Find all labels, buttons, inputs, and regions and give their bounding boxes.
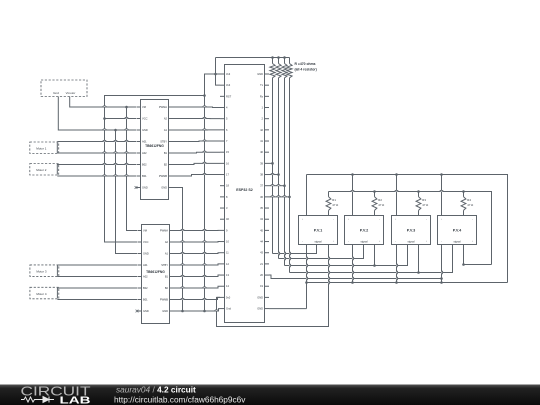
wire pin39 to R5 column [269, 162, 274, 165]
wire U2 GND down [173, 188, 184, 313]
wire U3 B1 to ESP [174, 275, 221, 276]
photovoltaic module PV2 [345, 216, 384, 245]
svg-text:Gnd: Gnd [226, 307, 231, 311]
wire U3 A1 to ESP [174, 252, 221, 255]
svg-text:signal: signal [314, 239, 321, 243]
svg-text:http://circuitlab.com/cfaw66h6: http://circuitlab.com/cfaw66h6p9c6v [114, 395, 246, 405]
photovoltaic module PV4 [438, 216, 477, 245]
wire bus PV4 signal [290, 245, 453, 273]
wire bus5 [269, 275, 443, 280]
wire Motor1 to U2 [57, 142, 136, 154]
wire Vmotor [70, 97, 136, 109]
svg-text:3v3: 3v3 [226, 72, 231, 76]
wire Motor2 to U2 [57, 165, 136, 177]
svg-text:VCC: VCC [142, 117, 148, 121]
label resistors 470 ohms [295, 62, 317, 72]
wire 5v0 loop [217, 245, 329, 327]
wire railA riser PV4 [441, 175, 443, 216]
svg-text:R4: R4 [467, 198, 471, 202]
resistor R2 47 [372, 192, 384, 216]
photovoltaic module PV3 [392, 216, 431, 245]
wire U2 STBY to ESP [173, 140, 221, 142]
motor M3 connector [30, 265, 59, 277]
hop v4 over bus3 [0, 0, 1, 1]
svg-text:B1: B1 [165, 275, 169, 279]
svg-text:5v0: 5v0 [226, 295, 231, 299]
wire U3 PWMB to ESP [174, 297, 221, 299]
junction rail R7 [283, 56, 286, 59]
wire U3 B2 to ESP [174, 286, 221, 288]
CircuitLab logo text CIRCUIT [21, 384, 91, 399]
motor M2 connector [30, 164, 59, 176]
hop v3 over bus2 [0, 0, 1, 1]
svg-text:GND: GND [142, 128, 148, 132]
resistor R4 47 [461, 192, 473, 216]
svg-text:ESP32 S2: ESP32 S2 [236, 188, 253, 192]
svg-text:A2: A2 [165, 240, 169, 244]
svg-text:A1: A1 [164, 128, 168, 132]
resistor R8 470 [287, 58, 292, 78]
wire GPIO38 net vertical [278, 78, 280, 259]
svg-text:PWMB: PWMB [160, 298, 168, 302]
footer url [114, 395, 246, 405]
svg-text:Gnd: Gnd [53, 91, 59, 95]
wire bus PV2 signal [279, 245, 364, 259]
wire 3v3 from pin1 [105, 74, 221, 242]
motor M1 connector [30, 142, 59, 154]
resistor R1 47 [326, 192, 338, 216]
svg-text:A2: A2 [164, 117, 168, 121]
junction 3v3 corner [203, 94, 206, 97]
wire railA riser PV3 [396, 175, 398, 216]
wire GPIO39 net vertical [272, 78, 274, 254]
svg-text:Motor 2: Motor 2 [36, 168, 47, 172]
CircuitLab logo resistor-diode symbol [21, 397, 54, 403]
wire U3 PWMA to ESP [174, 229, 221, 231]
svg-text:A01: A01 [142, 140, 147, 144]
footer bar [0, 385, 540, 405]
svg-text:PWMA: PWMA [159, 105, 167, 109]
svg-text:VM: VM [143, 229, 147, 233]
wire U2 A1 to ESP [173, 129, 221, 131]
wire PV3 gnd drop [395, 245, 398, 284]
svg-text:R1: R1 [332, 198, 336, 202]
wire PV3 pin3 drop [417, 245, 420, 274]
wire Motor4 to U3 [57, 288, 137, 300]
svg-text:PWMB: PWMB [159, 174, 167, 178]
svg-text:B01: B01 [143, 298, 148, 302]
svg-text:signal: signal [453, 239, 460, 243]
svg-text:GND: GND [257, 72, 263, 76]
wire bus PV3 signal [285, 245, 408, 266]
svg-text:P.V.2: P.V.2 [360, 229, 368, 233]
wire U2 PWMB to ESP [173, 175, 221, 176]
resistor R7 470 [282, 58, 287, 78]
svg-text:GND: GND [143, 252, 149, 256]
wire pin38 to R6 column [269, 173, 280, 176]
wire bus PV1 signal [273, 245, 317, 254]
svg-text:B1: B1 [164, 151, 168, 155]
wire U2 PWMA to ESP [173, 106, 221, 109]
svg-text:47 Ω: 47 Ω [332, 203, 338, 207]
wire crossing hops [103, 106, 444, 311]
wire PV4 gnd drop [440, 245, 443, 284]
IC U3 TB6612FNG (bottom driver) [138, 225, 174, 324]
wire GPIO37 net vertical [284, 78, 286, 266]
resistor R5 470 [270, 58, 275, 78]
svg-text:saurav04 / 4.2 circuit: saurav04 / 4.2 circuit [116, 385, 196, 395]
wire U3 A2 to ESP [174, 241, 221, 243]
svg-text:A1: A1 [165, 252, 169, 256]
svg-text:B2: B2 [165, 286, 169, 290]
svg-text:Motor 4: Motor 4 [36, 292, 47, 296]
svg-text:VM: VM [142, 105, 146, 109]
svg-text:Vmotor: Vmotor [66, 91, 76, 95]
svg-text:GND: GND [257, 295, 263, 299]
wire bus GND [307, 282, 508, 284]
wire U2 B1 to ESP [173, 151, 221, 154]
svg-text:STBY: STBY [161, 263, 168, 267]
svg-text:B01: B01 [142, 174, 147, 178]
svg-text:B2: B2 [164, 163, 168, 167]
wire 3v3 to U2 VCC [103, 117, 136, 120]
svg-text:A02: A02 [142, 151, 147, 155]
photovoltaic module PV1 [299, 216, 338, 245]
hop v4 over bus1 [0, 0, 1, 1]
wire GND column to U3 [116, 130, 138, 254]
wire GPIO36 net vertical [289, 78, 291, 273]
wire right GND to bus [269, 308, 307, 310]
svg-text:GND: GND [162, 309, 168, 313]
wire stby column [204, 96, 206, 312]
svg-text:P.V.3: P.V.3 [407, 229, 415, 233]
wire Motor3 to U3 [57, 265, 137, 277]
wire rail B [329, 190, 492, 264]
hop v3 over bus1 [0, 0, 1, 1]
svg-text:signal: signal [407, 239, 414, 243]
svg-text:GND: GND [142, 186, 148, 190]
svg-text:A01: A01 [143, 263, 148, 267]
svg-text:Motor 3: Motor 3 [36, 270, 47, 274]
wire 3v3 top rail [216, 58, 290, 86]
svg-text:STBY: STBY [160, 140, 167, 144]
junction rail R6 [277, 56, 280, 59]
wire railA riser PV2 [352, 175, 354, 216]
IC U1 ESP32 S2 [220, 65, 269, 323]
resistor R6 470 [276, 58, 281, 78]
CircuitLab logo text LAB [60, 395, 92, 405]
junction top rail / 3v3 pin1 wire [214, 73, 217, 76]
svg-text:GND: GND [161, 186, 167, 190]
svg-text:TB6612FNG: TB6612FNG [146, 270, 165, 274]
resistor R3 47 [416, 192, 428, 216]
svg-text:47 Ω: 47 Ω [467, 203, 473, 207]
wire pin37 to R7 column [269, 184, 286, 187]
svg-text:P.V.4: P.V.4 [453, 229, 462, 233]
wire gnd U3 to ESP [174, 309, 221, 313]
wire pin36 to R8 column [269, 196, 291, 199]
hop v4 over bus2 [0, 0, 1, 1]
wire VM column to U3 [127, 107, 138, 231]
svg-text:A02: A02 [143, 275, 148, 279]
connector J1 Gnd/Vmotor dashed box [41, 80, 87, 97]
no-connect U3 GND left [136, 310, 142, 313]
wire PV4 pin3 drop [462, 245, 491, 266]
svg-text:PWMA: PWMA [160, 229, 168, 233]
hop v2 over bus1 [0, 0, 1, 1]
svg-text:LAB: LAB [60, 395, 92, 405]
svg-text:47 Ω: 47 Ω [422, 203, 428, 207]
wire rail A [307, 173, 508, 282]
wire U3 STBY to ESP [174, 264, 221, 265]
svg-text:GND: GND [257, 307, 263, 311]
junction rail R5 [271, 56, 274, 59]
svg-text:R3: R3 [422, 198, 426, 202]
svg-text:47 Ω: 47 Ω [378, 203, 384, 207]
svg-text:3v3: 3v3 [226, 83, 231, 87]
svg-text:R =470 ohms: R =470 ohms [295, 62, 316, 66]
svg-text:P.V.1: P.V.1 [314, 229, 322, 233]
wire PV1 gnd drop [305, 245, 308, 309]
wire U2 A2 to ESP [173, 118, 221, 120]
svg-text:VCC: VCC [143, 240, 149, 244]
wire Gnd from connector [58, 97, 136, 132]
svg-text:GND: GND [143, 309, 149, 313]
svg-text:TB6612FNG: TB6612FNG [145, 144, 164, 148]
footer title [116, 385, 196, 395]
wire railA riser PV1 [306, 175, 308, 216]
svg-text:(all 4 resistor): (all 4 resistor) [295, 67, 317, 71]
svg-text:RST: RST [226, 94, 232, 98]
wire PV2 gnd drop [351, 245, 354, 284]
no-connect U2 GND left [135, 186, 141, 189]
svg-text:R2: R2 [378, 198, 382, 202]
svg-text:B02: B02 [142, 163, 147, 167]
wire PV2 pin3 drop [373, 245, 376, 267]
svg-text:Motor 1: Motor 1 [36, 147, 47, 151]
wire U2 B2 to ESP [173, 163, 221, 164]
svg-text:signal: signal [360, 239, 367, 243]
IC U2 TB6612FNG (top driver) [137, 100, 173, 200]
motor M4 connector [30, 287, 59, 299]
svg-text:B02: B02 [143, 286, 148, 290]
